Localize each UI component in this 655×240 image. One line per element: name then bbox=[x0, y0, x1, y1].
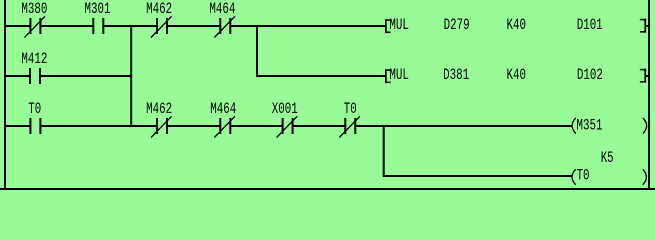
svg-text:X001: X001 bbox=[272, 100, 298, 118]
instruction bracket ] (MUL row 2) bbox=[640, 69, 648, 83]
left power rail bbox=[4, 0, 6, 190]
wire: left rail to M412 bbox=[5, 75, 29, 77]
svg-text:D381: D381 bbox=[443, 66, 469, 84]
contact T0 (NO) bbox=[28, 100, 41, 134]
svg-text:T0: T0 bbox=[28, 100, 41, 118]
right power rail bbox=[648, 0, 650, 190]
svg-text:D279: D279 bbox=[444, 16, 470, 34]
contact M462 (NC) row 3 bbox=[146, 100, 172, 138]
coil M351 bbox=[572, 116, 647, 134]
svg-text:K40: K40 bbox=[507, 16, 527, 34]
svg-text:T0: T0 bbox=[577, 166, 590, 184]
wire: M462 to M464 row 3 bbox=[168, 125, 220, 127]
contact T0 (NC) bbox=[339, 100, 360, 138]
svg-text:M412: M412 bbox=[21, 50, 47, 68]
contact M412 (NO) bbox=[21, 50, 47, 84]
svg-text:MUL: MUL bbox=[389, 16, 409, 34]
wire: branch to timer coil T0 bbox=[383, 175, 572, 177]
contact M301 (NO) bbox=[85, 0, 111, 34]
wire: branch to MUL row 2 bbox=[257, 75, 385, 77]
instruction bracket [ (MUL row 2) bbox=[385, 69, 391, 83]
wire: M301 to M462 bbox=[104, 25, 156, 27]
wire: M380 to M301 bbox=[41, 25, 92, 27]
wire: T0 to M462 row 3 bbox=[41, 125, 156, 127]
contact M464 (NC) row 1 bbox=[209, 0, 235, 38]
wire: M464 to X001 bbox=[231, 125, 282, 127]
vertical branch to second MUL at x=257 bbox=[256, 25, 258, 77]
vertical branch to timer coil at x=383 bbox=[383, 125, 385, 177]
svg-text:D101: D101 bbox=[577, 16, 603, 34]
contact M380 (NC) bbox=[21, 0, 47, 38]
wire: T0 NC to coil M351 bbox=[356, 125, 572, 127]
wire: left rail to T0 contact bbox=[5, 125, 30, 127]
wire: M464 to MUL instruction bbox=[231, 25, 385, 27]
svg-text:T0: T0 bbox=[344, 100, 357, 118]
instruction bracket [ (MUL row 1) bbox=[385, 19, 391, 33]
bottom separator line bbox=[0, 188, 655, 190]
wire: left rail to M380 bbox=[5, 25, 30, 27]
svg-text:M462: M462 bbox=[146, 0, 172, 18]
svg-text:M462: M462 bbox=[146, 100, 172, 118]
svg-text:K40: K40 bbox=[507, 66, 527, 84]
contact M462 (NC) row 1 bbox=[146, 0, 172, 38]
svg-text:M464: M464 bbox=[210, 100, 236, 118]
contact X001 (NC) bbox=[272, 100, 298, 138]
svg-text:MUL: MUL bbox=[389, 66, 409, 84]
svg-text:M301: M301 bbox=[85, 0, 111, 18]
timer coil T0 bbox=[572, 166, 646, 184]
wire: M412 to junction bbox=[41, 75, 131, 77]
wire: X001 to T0 NC bbox=[294, 125, 345, 127]
svg-text:M464: M464 bbox=[209, 0, 235, 18]
instruction bracket ] (MUL row 1) bbox=[640, 19, 648, 33]
vertical junction: parallel branch connector at x=131 (rows 1-3) bbox=[130, 25, 132, 127]
svg-text:M351: M351 bbox=[577, 116, 603, 134]
contact M464 (NC) row 3 bbox=[210, 100, 236, 138]
svg-text:D102: D102 bbox=[577, 66, 603, 84]
svg-text:K5: K5 bbox=[601, 149, 614, 167]
wire: M462 to M464 bbox=[168, 25, 220, 27]
svg-text:M380: M380 bbox=[21, 0, 47, 18]
